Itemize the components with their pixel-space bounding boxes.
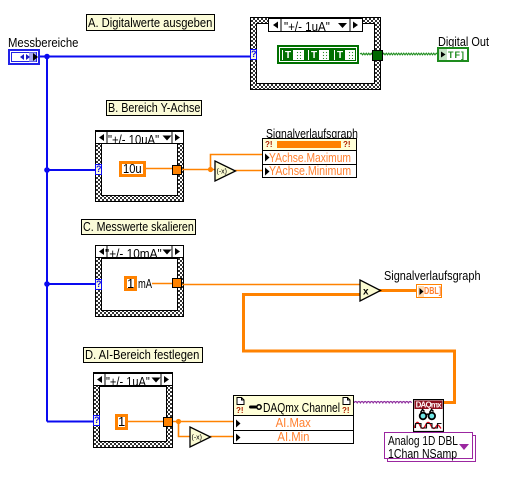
case D selector terminal ?	[93, 415, 100, 426]
label A	[86, 14, 215, 31]
wire: orange 1mA constant to tunnel C	[152, 283, 173, 285]
property node DAQmx Channel	[233, 395, 354, 444]
case structure D interior	[99, 386, 167, 442]
case B selector text	[108, 132, 159, 147]
case B selector label	[95, 131, 184, 144]
case structure A interior	[256, 23, 375, 84]
multiply node	[359, 279, 382, 302]
numeric constant 1	[124, 276, 137, 291]
svg-text:(-x): (-x)	[217, 169, 228, 176]
case D selector text	[106, 374, 150, 389]
DBL indicator arrow	[417, 286, 426, 297]
case structure C interior	[101, 258, 178, 311]
tunnel A output	[372, 50, 383, 61]
case D selector arrows	[93, 373, 173, 386]
wire: orange 1 constant to tunnel D	[128, 421, 164, 423]
tunnel C output	[172, 278, 182, 288]
case C selector terminal ?	[95, 279, 102, 290]
DBL indicator index block	[418, 286, 424, 297]
wire: orange array DAQmx Read data loop to multiply lower input	[244, 295, 455, 403]
indicator Digital Out boolean array	[437, 47, 469, 62]
case A selector text	[284, 19, 330, 34]
case D selector label	[93, 373, 173, 386]
junction dot orange B	[208, 167, 213, 172]
case A selector terminal ?	[250, 49, 257, 60]
boolean array element 2	[308, 50, 329, 60]
property node Signalverlaufsgraph label	[266, 127, 358, 140]
case B selector terminal ?	[95, 164, 102, 175]
case C selector text	[105, 246, 162, 261]
polymorphic selector shadow	[387, 435, 476, 462]
boolean array element 3	[334, 50, 355, 60]
wire: orange negate D output to AI.Min	[210, 436, 234, 438]
wire: orange branch down through negate D to AI.Min	[179, 422, 192, 437]
wire: blue branch to case C	[47, 283, 96, 285]
svg-text:DAQmx: DAQmx	[416, 401, 443, 410]
numeric constant 10u	[119, 161, 146, 177]
negate node B	[214, 160, 237, 182]
indicator Signalverlaufsgraph DBL	[416, 284, 442, 298]
wire: green boolean-array zigzag case A to Digital Out	[360, 53, 437, 55]
wire: orange negate output to YAchse.Minimum	[235, 170, 263, 172]
label D	[83, 347, 203, 363]
case structure A frame	[250, 17, 381, 90]
label B	[106, 100, 202, 116]
wire: blue branch to case B	[47, 169, 96, 171]
case A selector label	[268, 18, 363, 32]
wire: purple DAQmx task zigzag to DAQmx Read	[354, 402, 412, 403]
wire: orange tunnel C to multiply upper input	[181, 284, 361, 286]
case B selector arrows	[95, 131, 184, 144]
tunnel B output	[172, 165, 182, 175]
control Messbereiche ring terminal	[8, 49, 40, 65]
wire: orange 10u constant to tunnel B	[145, 168, 173, 170]
boolean array constant in case A	[277, 45, 359, 64]
junction dot blue top	[44, 54, 50, 60]
wire: orange tunnel D to AI.Max	[173, 421, 234, 423]
polymorphic VI selector Analog 1D DBL 1Chan NSamp	[384, 432, 473, 459]
case structure B interior	[101, 143, 178, 196]
indicator Digital Out label	[438, 35, 489, 48]
wire: blue trunk horizontal Messbereiche to case A selector terminal	[40, 56, 251, 58]
tunnel D output	[163, 417, 173, 427]
wire: blue branch to case D	[47, 421, 94, 423]
node Messbereiche label	[8, 36, 78, 49]
wire: orange tunnel B to negate input	[181, 169, 216, 171]
Digital Out array index block	[439, 49, 447, 60]
wire: orange array multiply output to DBL indicator	[379, 289, 417, 292]
junction dot blue B	[44, 167, 50, 173]
case structure C frame	[95, 245, 184, 317]
case A selector left arrow	[268, 18, 363, 32]
node DAQmx Read icon	[413, 399, 444, 432]
case structure D frame	[93, 372, 173, 448]
wire: blue trunk vertical	[46, 57, 48, 422]
boolean array element 1	[282, 50, 304, 60]
case structure B frame	[95, 130, 184, 202]
numeric constant 1 (case D)	[115, 414, 128, 430]
label C	[81, 219, 196, 235]
svg-text:(-x): (-x)	[192, 435, 203, 442]
junction dot blue C	[44, 281, 50, 287]
case C selector arrows	[95, 245, 184, 258]
property node YAchse	[262, 138, 357, 178]
wire: orange branch up to YAchse.Maximum	[211, 155, 264, 170]
Digital Out element arrow	[439, 50, 448, 60]
Digital Out TF text	[448, 50, 465, 60]
case C selector label	[95, 245, 184, 258]
svg-text:x: x	[363, 287, 369, 298]
negate node D	[189, 426, 212, 448]
DBL indicator text	[424, 286, 441, 297]
indicator Signalverlaufsgraph label	[384, 269, 481, 282]
junction dot orange D	[176, 419, 181, 424]
unit label mA	[138, 277, 152, 290]
